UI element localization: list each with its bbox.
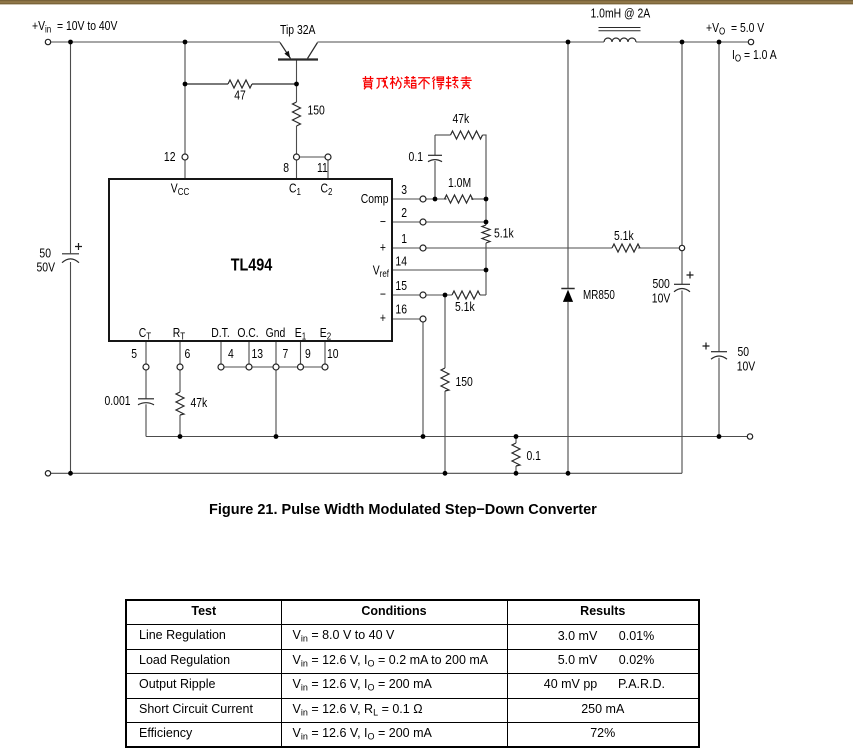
label R5 value 5.1k — [494, 226, 514, 240]
chip label VCC — [171, 181, 190, 197]
TEXTLABELS — [32, 6, 777, 463]
label +Vin input — [32, 19, 118, 35]
wire R7 right lead — [638, 247, 679, 249]
chip label Vref — [373, 263, 390, 279]
svg-text:10V: 10V — [737, 359, 756, 373]
svg-text:1.0M: 1.0M — [448, 176, 471, 190]
svg-text:1.0mH @ 2A: 1.0mH @ 2A — [591, 6, 651, 20]
label R10 value 47k — [191, 396, 208, 410]
wire top rail right segment — [636, 41, 748, 43]
wire pin16 stub — [392, 318, 420, 320]
chip label Gnd — [266, 326, 286, 340]
capacitor C1 50/50V — [62, 253, 79, 255]
svg-text:Vref: Vref — [373, 263, 390, 279]
label pin number 1 — [401, 232, 407, 246]
svg-text:Comp: Comp — [361, 192, 389, 206]
wire pin1 stub — [392, 247, 420, 249]
svg-text:47: 47 — [234, 88, 246, 102]
wire pin8 stub — [296, 160, 298, 179]
svg-text:0.001: 0.001 — [105, 394, 131, 408]
wire pin15 node — [426, 294, 452, 296]
pin 4 circle — [218, 364, 224, 370]
chip label C2 — [321, 181, 333, 197]
svg-text:8: 8 — [283, 161, 289, 175]
wire feedback vertical upper — [485, 135, 487, 225]
pin 3 circle — [420, 196, 426, 202]
resistor R6 5.1k pin15 — [452, 291, 480, 299]
label pin number 9 — [305, 347, 311, 361]
wire CT cap top lead — [145, 370, 147, 398]
resistor R4 1.0M — [445, 198, 447, 200]
node feedback tap — [679, 245, 684, 250]
capacitor C5 500/10V — [674, 283, 690, 285]
svg-text:13: 13 — [252, 347, 264, 361]
resistor R8 150 — [441, 368, 449, 391]
watermark char 1 — [363, 76, 374, 89]
wire RT leads — [179, 370, 181, 392]
svg-text:6: 6 — [185, 347, 191, 361]
label pin number 7 — [283, 347, 289, 361]
chip label E1 — [295, 326, 306, 342]
label C6 value 50 10V — [738, 345, 750, 359]
chip label minus pin2 — [380, 215, 386, 229]
label pin number 11 — [317, 161, 328, 175]
svg-text:14: 14 — [395, 254, 407, 268]
svg-text:Tip 32A: Tip 32A — [280, 23, 316, 37]
svg-text:CT: CT — [139, 326, 152, 342]
wire pin11 stub — [327, 160, 329, 179]
svg-text:7: 7 — [283, 347, 289, 361]
wire pin9 stub — [300, 341, 302, 364]
pin 11 circle — [325, 154, 331, 160]
wire R8 column upper — [444, 295, 446, 368]
svg-text:+Vin = 10V to 40V: +Vin = 10V to 40V — [32, 19, 118, 35]
svg-text:0.1: 0.1 — [527, 449, 541, 463]
pin 16 circle — [420, 316, 426, 322]
wire C3 corner horizontal — [435, 134, 451, 136]
wire R2 lead to pin8 — [296, 126, 298, 154]
chip label plus pin16 — [380, 311, 386, 325]
wire R9 top lead — [515, 437, 517, 444]
transistor Q1 collector — [308, 43, 318, 59]
resistor R1 47 — [185, 83, 228, 85]
wire R6 right lead to corner — [480, 294, 486, 296]
watermark char 3 — [390, 76, 402, 89]
svg-text:+: + — [380, 240, 386, 254]
svg-text:16: 16 — [395, 302, 407, 316]
inductor L1 1.0mH — [604, 38, 636, 42]
plus sign C6 — [703, 343, 710, 350]
svg-text:3: 3 — [401, 183, 407, 197]
svg-text:47k: 47k — [453, 112, 470, 126]
watermark char 8 — [461, 76, 472, 89]
svg-text:1: 1 — [401, 232, 407, 246]
svg-text:5: 5 — [131, 347, 137, 361]
wire ground bus pins 7-9 — [279, 366, 298, 368]
label pin number 10 — [327, 347, 339, 361]
label R2 value 150 — [308, 103, 326, 117]
svg-text:15: 15 — [395, 279, 407, 293]
label pin number 12 — [164, 150, 176, 164]
wire pin16 drop — [422, 322, 424, 437]
wire top rail middle segment — [318, 41, 605, 43]
wire left vertical bus lower — [70, 262, 72, 473]
label R4 value 1.0M — [448, 176, 471, 190]
wire C3 bottom lead — [434, 161, 436, 199]
caption — [209, 502, 597, 518]
svg-text:D.T.: D.T. — [211, 326, 229, 340]
label pin number 6 — [185, 347, 191, 361]
label pin number 2 — [401, 206, 407, 220]
transistor Q1 Tip32A emitter — [280, 43, 291, 59]
svg-text:4: 4 — [228, 347, 234, 361]
svg-text:RT: RT — [173, 326, 186, 342]
wire diode column upper — [567, 42, 569, 288]
label D1 MR850 — [583, 289, 615, 303]
svg-text:500: 500 — [653, 277, 671, 291]
wire pin1 long run — [426, 247, 612, 249]
svg-text:VCC: VCC — [171, 181, 190, 197]
junction dots — [68, 40, 73, 45]
wire C6 column lower — [718, 358, 720, 437]
chip label C1 — [289, 181, 301, 197]
wire pin2 stub — [392, 221, 420, 223]
label R6 value 5.1k — [455, 300, 475, 314]
svg-text:11: 11 — [317, 161, 328, 175]
wire pin12 stub — [184, 160, 186, 179]
resistor R2 150 — [293, 102, 301, 126]
watermark char 6 — [432, 77, 444, 90]
label pin number 15 — [395, 279, 407, 293]
svg-text:9: 9 — [305, 347, 311, 361]
label pin number 5 — [131, 347, 137, 361]
wire feedback vertical lower — [485, 243, 487, 295]
capacitor C3 0.1 — [428, 154, 442, 156]
chip label plus pin1 — [380, 240, 386, 254]
wire pin8 to pin11 — [300, 156, 325, 158]
wire pin5 stub — [145, 341, 147, 364]
svg-text:C1: C1 — [289, 181, 301, 197]
label IO output — [732, 48, 777, 64]
svg-text:E1: E1 — [295, 326, 306, 342]
chip label Comp — [361, 192, 389, 206]
wire base drop — [296, 61, 298, 103]
transistor Q1 base bar — [278, 58, 318, 60]
wire pin3 stub — [392, 198, 420, 200]
chip label minus pin15 — [380, 287, 386, 301]
svg-text:MR850: MR850 — [583, 289, 615, 303]
label R7 value 5.1k — [614, 229, 634, 243]
label pin number 16 — [395, 302, 407, 316]
svg-text:C2: C2 — [321, 181, 333, 197]
pin 8 circle — [294, 154, 300, 160]
terminal output + — [748, 39, 753, 44]
watermark char 2 — [377, 77, 389, 89]
wire pin7 drop — [275, 370, 277, 437]
svg-text:150: 150 — [456, 375, 474, 389]
watermark char 4 — [404, 76, 416, 88]
svg-text:IO = 1.0 A: IO = 1.0 A — [732, 48, 777, 64]
wire pin3 node — [426, 198, 445, 200]
resistor R7 5.1k output — [612, 244, 640, 252]
chip label E2 — [320, 326, 331, 342]
svg-text:150: 150 — [308, 103, 326, 117]
resistor R10 47k RT — [176, 392, 184, 415]
svg-text:O.C.: O.C. — [237, 326, 258, 340]
diode D1 MR850 — [561, 288, 574, 290]
wire R8 column lower — [444, 391, 446, 473]
svg-text:+VO = 5.0 V: +VO = 5.0 V — [706, 21, 764, 37]
wire R4 right lead — [471, 198, 486, 200]
pin 6 circle — [177, 364, 183, 370]
label C2 value 0.001 — [105, 394, 131, 408]
svg-text:50: 50 — [39, 246, 51, 260]
wire R3 right lead — [483, 134, 487, 136]
plus sign C1 — [75, 243, 82, 250]
terminal input + — [45, 39, 50, 44]
svg-text:50V: 50V — [37, 260, 56, 274]
label R8 value 150 — [456, 375, 474, 389]
capacitor C6 50/10V — [711, 351, 727, 353]
label pin number 3 — [401, 183, 407, 197]
label pin number 4 — [228, 347, 234, 361]
svg-text:E2: E2 — [320, 326, 331, 342]
resistor R3 47k — [451, 131, 483, 139]
wire C5 column mid — [681, 251, 683, 284]
red watermark 黄成秘籍不得转卖 — [363, 76, 472, 89]
svg-text:−: − — [380, 287, 386, 301]
wire CT cap bottom lead — [145, 404, 147, 436]
wire top rail left segment — [51, 41, 280, 43]
svg-text:0.1: 0.1 — [409, 150, 423, 164]
wire left vertical bus upper — [70, 42, 72, 253]
wire pin15 stub — [392, 294, 420, 296]
svg-text:10: 10 — [327, 347, 339, 361]
wire pin2 to feedback line — [426, 221, 486, 223]
chip label CT — [139, 326, 152, 342]
wire pin13 stub — [248, 341, 250, 364]
pin 2 circle — [420, 219, 426, 225]
wire diode column lower — [567, 302, 569, 473]
chip label D.T. — [211, 326, 229, 340]
wire pin6 stub — [179, 341, 181, 364]
label pin number 14 — [395, 254, 407, 268]
label C5 value 500 10V — [653, 277, 671, 291]
wire C3 top lead — [434, 135, 436, 155]
label C1 value 50 50V — [39, 246, 51, 260]
label R3 value 47k — [453, 112, 470, 126]
wire ground bus pins 13-7 — [252, 366, 273, 368]
label C3 value 0.1 — [409, 150, 423, 164]
chip label RT — [173, 326, 186, 342]
pin 5 circle — [143, 364, 149, 370]
svg-text:2: 2 — [401, 206, 407, 220]
pin 10 circle — [322, 364, 328, 370]
svg-text:+: + — [380, 311, 386, 325]
chip label O.C. — [237, 326, 258, 340]
plus sign C5 — [687, 272, 694, 279]
pin 1 circle — [420, 245, 426, 251]
wire R9 bottom lead — [515, 466, 517, 473]
svg-text:Gnd: Gnd — [266, 326, 286, 340]
wire ground bus pins 9-10 — [304, 366, 323, 368]
resistor R5 5.1k vertical — [482, 225, 490, 243]
label pin number 13 — [252, 347, 264, 361]
resistor R9 0.1 — [512, 443, 520, 466]
svg-text:10V: 10V — [652, 291, 671, 305]
wire ground sense rail — [146, 436, 747, 438]
watermark char 5 — [418, 78, 430, 89]
terminal input return — [45, 471, 50, 476]
label Tip 32A — [280, 23, 316, 37]
label +VO output — [706, 21, 764, 37]
terminal output return — [747, 434, 752, 439]
svg-text:5.1k: 5.1k — [455, 300, 475, 314]
label R9 value 0.1 — [527, 449, 541, 463]
pin 13 circle — [246, 364, 252, 370]
wire pin12 vertical — [184, 42, 186, 154]
pin 12 circle — [182, 154, 188, 160]
svg-text:5.1k: 5.1k — [614, 229, 634, 243]
wire pin7 stub — [275, 341, 277, 364]
wire C5 column lower — [681, 291, 683, 474]
capacitor C2 0.001 — [138, 398, 154, 400]
watermark char 7 — [446, 76, 459, 89]
wire ground bus pins 4-13 — [224, 366, 246, 368]
svg-text:TL494: TL494 — [231, 255, 273, 275]
svg-text:12: 12 — [164, 150, 176, 164]
pin 9 circle — [298, 364, 304, 370]
label R1 value 47 — [234, 88, 246, 102]
wire pin10 stub — [324, 341, 326, 364]
label pin number 8 — [283, 161, 289, 175]
svg-text:50: 50 — [738, 345, 750, 359]
svg-text:5.1k: 5.1k — [494, 226, 514, 240]
wire pin4 stub — [220, 341, 222, 364]
chip name TL494 — [231, 255, 273, 275]
wire pin14 run — [392, 269, 486, 271]
svg-text:−: − — [380, 215, 386, 229]
wire C5 column upper — [681, 42, 683, 245]
label 1.0mH @ 2A — [591, 6, 651, 20]
pin 7 circle — [273, 364, 279, 370]
svg-text:47k: 47k — [191, 396, 208, 410]
results table — [125, 599, 700, 748]
pin 15 circle — [420, 292, 426, 298]
wire bottom rail — [51, 472, 682, 474]
IC U1 TL494 — [109, 179, 392, 341]
wire C6 column upper — [718, 42, 720, 351]
